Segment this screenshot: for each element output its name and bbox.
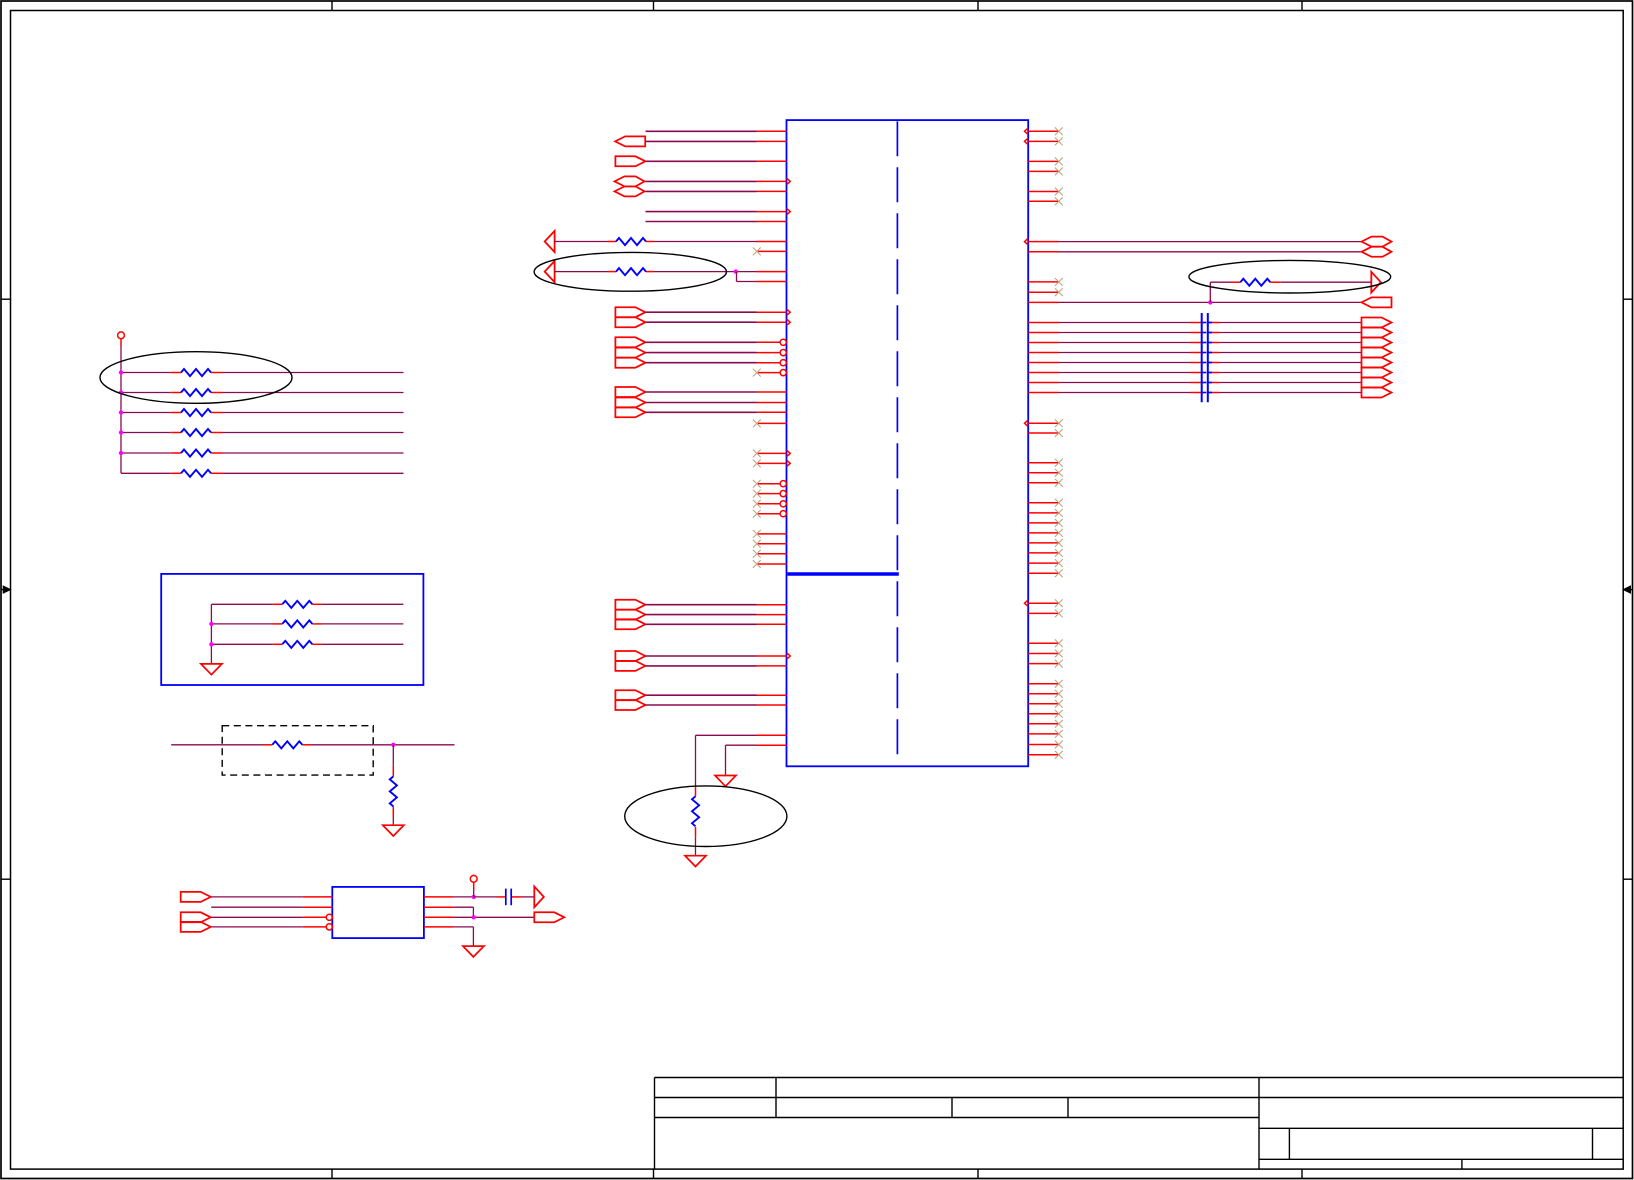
pin row 241 — [757, 241, 787, 243]
wire row 312 — [646, 311, 757, 313]
no-connect X row 543 — [753, 540, 761, 548]
resistor R-bottom — [692, 796, 699, 826]
no-connect X row 564 — [753, 560, 761, 568]
wire U2 row3 out — [453, 916, 534, 918]
no-connect X row 372 — [753, 369, 761, 377]
output triangle connector U2 row1 — [534, 887, 544, 908]
resistor Rb2 — [282, 620, 312, 627]
wire U2 row1 to junction — [453, 896, 473, 898]
wire right row 251 — [1059, 251, 1362, 253]
open terminal circle — [118, 332, 125, 339]
bidirectional connector right (row 241) — [1362, 237, 1392, 247]
inversion bubble row 372 — [780, 370, 786, 376]
wire Rb1 out — [322, 603, 403, 605]
no-connect X right y292.2 — [1055, 288, 1063, 296]
pin arrowhead row 181 — [787, 178, 791, 185]
wire row 744 out — [312, 744, 455, 746]
no-connect stub right y733.9 — [1028, 733, 1058, 735]
wire bus bit3 segment a — [1059, 352, 1191, 354]
pin row 735 — [757, 734, 787, 736]
inversion bubble row 493 — [780, 491, 786, 497]
resistor R3 — [181, 409, 211, 416]
output triangle connector right (row 282) — [1371, 272, 1381, 293]
no-connect stub row 533 — [758, 533, 787, 535]
wire branch down to row 281 — [736, 272, 738, 282]
no-connect stub right y683.7 — [1028, 683, 1058, 685]
wire bus bit0 segment b — [1219, 322, 1362, 324]
wire right row 302 — [1059, 301, 1362, 303]
off-page connector U2 row4 — [181, 922, 211, 932]
no-connect stub row 463 — [758, 462, 787, 464]
no-connect stub right y744.5 — [1028, 744, 1058, 746]
bidirectional connector (row 191) — [615, 186, 645, 196]
pin arrowhead row 453 — [787, 450, 791, 457]
wire U2 row2 — [211, 906, 303, 908]
no-connect stub right y433 — [1028, 432, 1058, 434]
junction node U2 row1 — [472, 895, 476, 899]
off-page connector (row 402) — [615, 398, 645, 408]
wire rail to R2 — [121, 392, 171, 394]
resistor R6 — [181, 470, 211, 477]
IC U1 internal dashed divider — [896, 121, 898, 754]
ellipse highlight bottom resistor — [625, 786, 787, 847]
off-page connector (row 705) — [615, 700, 645, 710]
off-page connector bus bit1 — [1362, 328, 1392, 338]
no-connect X right y522.9 — [1055, 519, 1063, 527]
wire U2 row1 — [211, 896, 303, 898]
no-connect X row 251 — [753, 248, 761, 256]
junction node box rail 2 — [209, 642, 213, 646]
pin right row 241 — [1028, 241, 1058, 243]
wire resistor row 282 — [1210, 281, 1230, 283]
no-connect stub right y563.1 — [1028, 562, 1058, 564]
wire bus bit1 segment a — [1059, 332, 1191, 334]
pin arrowhead row 322 — [787, 319, 791, 326]
wire row 282 to triangle — [1281, 281, 1372, 283]
resistor Rd leads — [263, 744, 273, 746]
ground GND-3 (box) — [201, 664, 222, 675]
resistor R2 leads — [171, 392, 181, 394]
no-connect stub right y653.5 — [1028, 653, 1058, 655]
no-connect X row 533 — [753, 530, 761, 538]
no-connect X row 483 — [753, 480, 761, 488]
IC U1 internal thick bar — [788, 572, 899, 575]
border bottom tick 1 — [331, 1169, 333, 1178]
inversion bubble row 513 — [780, 511, 786, 517]
no-connect stub row 553 — [758, 553, 787, 555]
inversion bubble row 503 — [780, 501, 786, 507]
wire row 614 — [646, 614, 757, 616]
wire U2 row2 bend down — [453, 906, 473, 908]
resistor R3 leads — [171, 412, 181, 414]
wire Rb2 out — [322, 623, 403, 625]
wire bus bit0 segment a — [1059, 322, 1191, 324]
no-connect X right y713.8 — [1055, 710, 1063, 718]
junction node rail 1 — [119, 370, 123, 374]
no-connect stub right y663.6 — [1028, 663, 1058, 665]
no-connect X right y693.7 — [1055, 690, 1063, 698]
off-page connector bus bit0 — [1362, 318, 1392, 328]
wire R-bottom to ground — [695, 837, 697, 855]
pin right row 302 — [1028, 301, 1058, 303]
wire Rb3 out — [322, 643, 403, 645]
no-connect X right y643.3 — [1055, 639, 1063, 647]
open terminal circle U2 — [470, 875, 477, 882]
wire row 211 — [646, 211, 757, 213]
wire row 745 to ground — [726, 744, 757, 746]
ground GND-2 — [685, 856, 706, 867]
no-connect stub right y131.3 — [1028, 130, 1058, 132]
wire R2 out — [223, 392, 404, 394]
wire row 656 — [646, 655, 757, 657]
no-connect stub right y462.7 — [1028, 462, 1058, 464]
border left tick 1 — [1, 298, 11, 300]
no-connect stub right y552.9 — [1028, 552, 1058, 554]
no-connect stub right y522.9 — [1028, 522, 1058, 524]
no-connect stub right y201.3 — [1028, 200, 1058, 202]
off-page connector (row 352) — [615, 348, 645, 358]
off-page connector U2 row1 — [181, 892, 211, 902]
bidirectional connector (row 181) — [615, 176, 645, 186]
wire bus bit4 segment b — [1219, 362, 1362, 364]
wire rail to R1 — [121, 372, 171, 374]
no-connect X right y744.5 — [1055, 741, 1063, 749]
resistor R-row271 leads — [608, 271, 616, 273]
wire rail to R3 — [121, 412, 171, 414]
wire bus bit2 segment a — [1059, 342, 1191, 344]
wire rail to R4 — [121, 432, 171, 434]
resistor R5 leads — [171, 452, 181, 454]
wire bus bit3 segment b — [1219, 352, 1362, 354]
no-connect stub row 372 — [758, 372, 780, 374]
wire row 402 — [646, 402, 757, 404]
resistor Rd (series) — [272, 741, 302, 748]
no-connect stub right y482.7 — [1028, 482, 1058, 484]
pin arrowhead row 211 — [787, 208, 791, 215]
border right tick 2 — [1623, 878, 1632, 880]
bus bit3 red leads at coupler — [1191, 352, 1202, 354]
capacitor C1 — [505, 889, 507, 906]
no-connect X right y603.2 — [1055, 599, 1063, 607]
inversion bubble row 342 — [780, 339, 786, 345]
pin right bus bit0 — [1028, 322, 1058, 324]
pin U2 right row3 — [424, 916, 454, 918]
pin right bus bit1 — [1028, 332, 1058, 334]
no-connect stub right y292.2 — [1028, 291, 1058, 293]
wire row 271 segment b — [654, 271, 757, 273]
border right mid arrow — [1629, 589, 1633, 591]
wire R6 out — [223, 472, 404, 474]
wire U2 row3 — [211, 916, 303, 918]
no-connect stub right y573.2 — [1028, 572, 1058, 574]
wire row 665 — [646, 665, 757, 667]
no-connect stub right y161.4 — [1028, 160, 1058, 162]
pin arrowhead row 312 — [787, 309, 791, 316]
border top tick 3 — [977, 1, 979, 11]
border left tick 2 — [1, 878, 11, 880]
pin arrowhead row 463 — [787, 460, 791, 467]
no-connect X right y723.8 — [1055, 720, 1063, 728]
border left mid arrow — [1, 589, 5, 591]
resistor R-right leads — [1231, 281, 1241, 283]
off-page connector bus bit3 — [1362, 348, 1392, 358]
box vertical rail — [210, 604, 212, 664]
capacitor C1 leads — [497, 896, 506, 898]
resistor R1 — [181, 369, 211, 376]
no-connect stub row 564 — [758, 563, 787, 565]
border top tick 4 — [1301, 1, 1303, 11]
off-page connector (row 392) — [615, 387, 645, 397]
off-page connector bus bit5 — [1362, 368, 1392, 378]
wire long row 744 — [171, 744, 262, 746]
resistor Rb2 leads — [272, 623, 282, 625]
IC U2 body — [332, 887, 424, 938]
resistor R-row241 — [616, 238, 646, 245]
wire bus bit7 segment a — [1059, 392, 1191, 394]
no-connect X right y613.4 — [1055, 610, 1063, 618]
no-connect stub right y532.9 — [1028, 532, 1058, 534]
no-connect stub row 483 — [758, 483, 780, 485]
off-page connector (row 362) — [615, 358, 645, 368]
no-connect X right y563.1 — [1055, 559, 1063, 567]
no-connect stub right y512.9 — [1028, 512, 1058, 514]
resistor R5 — [181, 450, 211, 457]
wire U2 row4 bend to ground — [453, 926, 473, 928]
wire bus bit7 segment b — [1219, 392, 1362, 394]
wire row 604 — [646, 604, 757, 606]
off-page connector bus bit2 — [1362, 338, 1392, 348]
no-connect X right y653.5 — [1055, 650, 1063, 658]
no-connect stub right y643.3 — [1028, 642, 1058, 644]
off-page connector bus bit4 — [1362, 358, 1392, 368]
no-connect X row 553 — [753, 550, 761, 558]
wire row 241 segment b — [654, 241, 757, 243]
wire row 352 — [646, 352, 757, 354]
wire row 181 — [646, 180, 757, 182]
no-connect X right y462.7 — [1055, 459, 1063, 467]
bidirectional connector right (row 251) — [1362, 247, 1392, 257]
off-page connector (row 322) — [615, 317, 645, 327]
no-connect X right y683.7 — [1055, 680, 1063, 688]
bus bit6 red leads at coupler — [1191, 382, 1202, 384]
off-page connector (row 624) — [615, 619, 645, 629]
no-connect stub right y713.8 — [1028, 713, 1058, 715]
title block — [655, 1078, 1624, 1170]
no-connect X row 503 — [753, 500, 761, 508]
border top tick 2 — [653, 1, 655, 11]
resistor Rg (pull-down) — [390, 776, 397, 806]
pin arrowhead right y603.2 — [1025, 600, 1029, 607]
no-connect X right y512.9 — [1055, 509, 1063, 517]
no-connect X right y754.8 — [1055, 751, 1063, 759]
off-page connector left-pointing right side (row 302) — [1362, 297, 1392, 307]
no-connect stub row 251 — [758, 250, 787, 252]
pin right bus bit6 — [1028, 382, 1058, 384]
ellipse highlight right resistor — [1189, 260, 1391, 293]
wire bus bit4 segment a — [1059, 362, 1191, 364]
off-page connector U2 row3 — [181, 912, 211, 922]
wire R4 out — [223, 432, 404, 434]
off-page connector (row 695) — [615, 690, 645, 700]
no-connect X right y552.9 — [1055, 549, 1063, 557]
no-connect stub right y613.4 — [1028, 612, 1058, 614]
no-connect stub right y542.9 — [1028, 542, 1058, 544]
group box (blue) — [161, 574, 423, 685]
off-page connector (row 656) — [615, 651, 645, 661]
border bottom tick 2 — [653, 1169, 655, 1178]
off-page connector bus bit7 — [1362, 388, 1392, 398]
wire U2 row1 to capacitor — [474, 896, 497, 898]
series coupler bars — [1201, 313, 1203, 402]
ellipse highlight left resistor — [534, 252, 726, 291]
off-page connector (row 614) — [615, 610, 645, 620]
dashed option box — [222, 726, 373, 775]
coupler row stubs — [1202, 323, 1213, 393]
no-connect X right y201.3 — [1055, 197, 1063, 205]
wire bus bit1 segment b — [1219, 332, 1362, 334]
pin U2 right row4 — [424, 926, 454, 928]
wire bus bit5 segment b — [1219, 372, 1362, 374]
U1 left pin row1 wire — [646, 130, 757, 132]
ellipse highlight pull-up resistors — [100, 352, 292, 404]
wire bus bit6 segment b — [1219, 382, 1362, 384]
pin arrowhead right y131.3 — [1025, 128, 1029, 135]
wire rail to Rb2 — [211, 623, 272, 625]
no-connect X right y433 — [1055, 429, 1063, 437]
wire Rg to ground — [392, 818, 394, 826]
no-connect X right y423.3 — [1055, 419, 1063, 427]
wire R3 out — [223, 412, 404, 414]
junction node box rail 1 — [209, 622, 213, 626]
pin arrowhead right y141.4 — [1025, 138, 1029, 145]
wire bus bit5 segment a — [1059, 372, 1191, 374]
inversion bubble row 483 — [780, 481, 786, 487]
ground GND-5 (U2) — [463, 946, 484, 957]
pin right bus bit7 — [1028, 392, 1058, 394]
inversion bubble U2 row3 — [326, 914, 332, 920]
no-connect X right y663.6 — [1055, 660, 1063, 668]
junction node rail 4 — [119, 430, 123, 434]
pin arrowhead right y423.3 — [1025, 420, 1029, 427]
border bottom tick 4 — [1301, 1169, 1303, 1178]
border top tick 1 — [331, 1, 333, 11]
wire bus bit6 segment a — [1059, 382, 1191, 384]
no-connect stub row 423 — [758, 422, 787, 424]
no-connect X right y171.4 — [1055, 168, 1063, 176]
no-connect stub row 503 — [758, 503, 780, 505]
bus bit4 red leads at coupler — [1191, 362, 1202, 364]
pin arrowhead right row 241 — [1025, 238, 1029, 245]
wire bus bit2 segment b — [1219, 342, 1362, 344]
junction node row 302 — [1208, 300, 1212, 304]
wire down from junction — [392, 745, 394, 766]
resistor R-bottom leads — [695, 787, 697, 796]
wire rail to Rb3 — [211, 643, 272, 645]
pin U2 right row1 — [424, 896, 454, 898]
wire row 221 — [646, 221, 757, 223]
off-page connector (row 412) — [615, 407, 645, 417]
no-connect X right y161.4 — [1055, 158, 1063, 166]
resistor R4 — [181, 429, 211, 436]
no-connect stub row 513 — [758, 513, 780, 515]
wire row 624 — [646, 623, 757, 625]
wire row 412 — [646, 411, 757, 413]
wire row 191 — [646, 190, 757, 192]
resistor R6 leads — [171, 472, 181, 474]
bus bit1 red leads at coupler — [1191, 332, 1202, 334]
wire capacitor to triangle — [521, 896, 534, 898]
no-connect stub right y171.4 — [1028, 170, 1058, 172]
no-connect stub row 493 — [758, 493, 780, 495]
no-connect stub right y502.8 — [1028, 502, 1058, 504]
off-page connector (row 665) — [615, 661, 645, 671]
ground GND-4 — [383, 825, 404, 836]
wire row 735 to resistor — [696, 734, 757, 736]
no-connect X row 513 — [753, 510, 761, 518]
resistor R2 — [181, 389, 211, 396]
no-connect X row 493 — [753, 490, 761, 498]
wire junction up to resistor — [1209, 282, 1211, 302]
off-page connector left-pointing (row 141) — [615, 136, 645, 146]
terminal lead U2 — [473, 882, 475, 890]
wire rail to R6 — [121, 472, 171, 474]
pin row 745 — [757, 744, 787, 746]
no-connect X right y191.5 — [1055, 188, 1063, 196]
off-page connector (row 604) — [615, 600, 645, 610]
off-page connector (row 312) — [615, 307, 645, 317]
junction node rail 2 — [119, 390, 123, 394]
no-connect X right y532.9 — [1055, 529, 1063, 537]
junction node row 271 — [734, 269, 738, 273]
resistor Rg leads — [392, 766, 394, 777]
no-connect X row 453 — [753, 450, 761, 458]
no-connect stub right y723.8 — [1028, 723, 1058, 725]
no-connect stub right y141.4 — [1028, 140, 1058, 142]
wire row 322 — [646, 321, 757, 323]
no-connect stub right y754.8 — [1028, 754, 1058, 756]
resistor R4 leads — [171, 432, 181, 434]
wire vertical to R-bottom — [695, 735, 697, 787]
IC U1 body — [787, 120, 1029, 766]
border bottom tick 3 — [977, 1169, 979, 1178]
pin right row 251 — [1028, 251, 1058, 253]
resistor Rb1 — [282, 601, 312, 608]
inversion bubble row 362 — [780, 360, 786, 366]
off-page connector bus bit6 — [1362, 378, 1392, 388]
junction node rail 3 — [119, 410, 123, 414]
no-connect X right y502.8 — [1055, 499, 1063, 507]
no-connect stub right y603.2 — [1028, 602, 1058, 604]
wire R5 out — [223, 452, 404, 454]
wire row 342 — [646, 341, 757, 343]
pin arrowhead row 656 — [787, 653, 791, 660]
pin right bus bit5 — [1028, 372, 1058, 374]
no-connect X right y573.2 — [1055, 569, 1063, 577]
no-connect X right y281.9 — [1055, 278, 1063, 286]
border right tick 1 — [1623, 298, 1632, 300]
pin right bus bit2 — [1028, 342, 1058, 344]
off-page connector (row 342) — [615, 337, 645, 347]
terminal lead — [120, 339, 122, 346]
junction node U2 row3 — [472, 915, 476, 919]
wire U2 row4 — [211, 926, 303, 928]
no-connect X row 463 — [753, 460, 761, 468]
bus bit2 red leads at coupler — [1191, 342, 1202, 344]
resistor R-right — [1240, 279, 1270, 286]
inversion bubble U2 row4 — [326, 924, 332, 930]
pin row 281 — [757, 281, 787, 283]
inversion bubble row 352 — [780, 350, 786, 356]
